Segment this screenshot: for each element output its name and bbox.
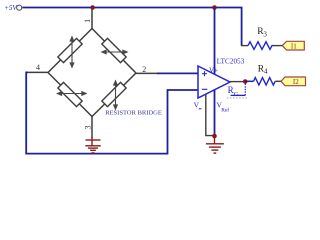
op-amp U1 LTC2053 triangle	[198, 66, 230, 98]
svg-text:G: G	[234, 91, 239, 98]
wire V- pin down and right	[206, 94, 214, 135]
wire RG feedback loop	[231, 94, 246, 96]
bridge arm bottom-right	[92, 73, 136, 117]
off-page connector I2	[281, 77, 306, 86]
svg-text:R: R	[228, 85, 234, 95]
svg-text:2: 2	[142, 65, 146, 74]
arrow top-right resistor horizontal	[102, 50, 127, 54]
svg-text:V: V	[194, 100, 200, 109]
svg-text:Ref: Ref	[221, 106, 229, 113]
junction output	[243, 79, 248, 84]
svg-text:4: 4	[264, 67, 268, 75]
wire node3 drop	[91, 117, 93, 139]
svg-text:3: 3	[263, 31, 267, 39]
wire VRef pin down	[214, 90, 216, 136]
wire node2 to plus input blue part	[157, 72, 198, 74]
svg-text:3: 3	[84, 126, 93, 130]
svg-text:+5V: +5V	[4, 4, 17, 12]
ground op-amp	[206, 136, 224, 153]
+5V terminal circle	[17, 5, 22, 10]
arrow top-left resistor vertical	[70, 37, 74, 67]
svg-text:V+: V+	[209, 66, 218, 74]
wire V+ drop	[214, 8, 216, 75]
arrow bottom-right resistor vertical	[114, 81, 118, 109]
svg-text:I2: I2	[293, 78, 299, 86]
svg-text:RESISTOR BRIDGE: RESISTOR BRIDGE	[105, 110, 162, 117]
off-page connector I1	[282, 41, 304, 50]
wire op-amp output stub	[230, 81, 245, 83]
ground bridge	[85, 137, 100, 153]
resistor R3	[241, 45, 248, 47]
wire bridge top drop	[91, 8, 93, 29]
op-amp minus sign	[202, 88, 208, 90]
junction bridge top	[90, 5, 95, 10]
arrow bottom-left resistor horizontal	[57, 92, 86, 96]
resistor body bottom-left	[58, 82, 82, 106]
wire node4 stub	[28, 71, 48, 73]
resistor body bottom-right	[102, 82, 126, 106]
bridge arm top-right	[92, 29, 136, 74]
resistor R4	[245, 80, 253, 82]
svg-text:4: 4	[36, 63, 40, 72]
resistor body top-right	[102, 38, 126, 62]
svg-text:LTC2053: LTC2053	[217, 58, 245, 66]
junction V+	[212, 5, 217, 10]
wire node4 to left rail, bottom rail, up to minus input	[26, 72, 198, 153]
wire top rail from +5V to R3 drop	[22, 8, 241, 46]
svg-text:I1: I1	[291, 42, 297, 50]
junction ground	[212, 134, 217, 139]
wire node2 to plus input	[136, 72, 157, 74]
svg-text:1: 1	[83, 19, 92, 23]
resistor body top-left	[58, 38, 82, 62]
op-amp plus sign	[202, 71, 207, 76]
bridge arm bottom-left	[48, 73, 92, 117]
dotted guide under RG loop	[227, 97, 247, 99]
bridge arm top-left	[48, 29, 92, 73]
